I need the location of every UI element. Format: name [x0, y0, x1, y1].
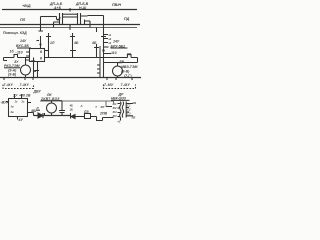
svg-text:ПВ/Н: ПВ/Н: [112, 3, 121, 7]
svg-text:ДВ: ДВ: [118, 60, 125, 64]
svg-text:С3: С3: [127, 112, 131, 116]
svg-text:1Б: 1Б: [70, 108, 74, 112]
svg-text:2П: 2П: [100, 105, 106, 109]
svg-text:4БГ: 4БГ: [30, 109, 38, 113]
svg-text:ВУС-5Б: ВУС-5Б: [16, 44, 29, 48]
svg-text:Я2: Я2: [131, 115, 136, 119]
svg-text:+В/Д: +В/Д: [22, 4, 31, 8]
svg-text:Н-Ш: Н-Ш: [79, 6, 87, 10]
svg-text:С2: С2: [127, 108, 131, 112]
svg-text:7-МУ: 7-МУ: [104, 83, 114, 87]
svg-text:Ж2: Ж2: [112, 106, 117, 110]
svg-text:+50 2В: +50 2В: [19, 94, 31, 98]
svg-text:РКЗ-ТЭМ: РКЗ-ТЭМ: [4, 64, 20, 68]
svg-text:-ВУА: -ВУА: [1, 101, 10, 105]
svg-text:ДВУ: ДВУ: [33, 90, 42, 94]
svg-text:4Б: 4Б: [91, 41, 97, 45]
svg-text:(З-Б): (З-Б): [8, 73, 17, 77]
svg-text:(7-Г): (7-Г): [124, 74, 132, 78]
svg-text:14У: 14У: [20, 39, 27, 43]
svg-text:2ПВ: 2ПВ: [99, 112, 107, 116]
svg-text:(З-В): (З-В): [121, 70, 130, 74]
svg-text:А+Б: А+Б: [53, 6, 62, 10]
svg-text:А: А: [80, 104, 83, 108]
svg-text:7-МУ: 7-МУ: [4, 83, 14, 87]
svg-text:2в: 2в: [10, 110, 14, 114]
svg-text:–110: –110: [109, 51, 117, 55]
svg-text:БРУ-5Б2: БРУ-5Б2: [111, 44, 126, 48]
svg-text:14У: 14У: [113, 40, 120, 44]
svg-text:1Л: 1Л: [50, 41, 55, 45]
svg-text:4У: 4У: [18, 118, 24, 122]
svg-text:ЗФ: ЗФ: [127, 53, 132, 57]
svg-text:–110: –110: [15, 51, 23, 55]
svg-text:Я1: Я1: [132, 101, 137, 105]
svg-text:7-МУ: 7-МУ: [121, 83, 131, 87]
svg-text:Ж3: Ж3: [112, 110, 117, 114]
svg-text:ПЛ: ПЛ: [20, 18, 26, 22]
svg-text:Ж1: Ж1: [112, 102, 117, 106]
svg-text:Помощн. КЗД: Помощн. КЗД: [3, 31, 27, 35]
svg-text:7-МУ: 7-МУ: [20, 83, 30, 87]
svg-text:Ж4: Ж4: [112, 114, 117, 118]
svg-text:4Б: 4Б: [73, 41, 79, 45]
svg-text:ПД: ПД: [124, 17, 130, 21]
svg-text:2КВТ-ВЗЗ: 2КВТ-ВЗЗ: [40, 97, 60, 101]
svg-text:1У: 1У: [13, 94, 18, 98]
svg-text:1в: 1в: [11, 105, 14, 109]
svg-text:НВК-ШЗЗ: НВК-ШЗЗ: [111, 97, 126, 101]
svg-text:ЛЗ: ЛЗ: [83, 110, 89, 114]
svg-text:2г: 2г: [21, 100, 25, 104]
svg-text:МВЗ-ТЭМ: МВЗ-ТЭМ: [121, 65, 137, 69]
svg-text:С1: С1: [127, 104, 131, 108]
